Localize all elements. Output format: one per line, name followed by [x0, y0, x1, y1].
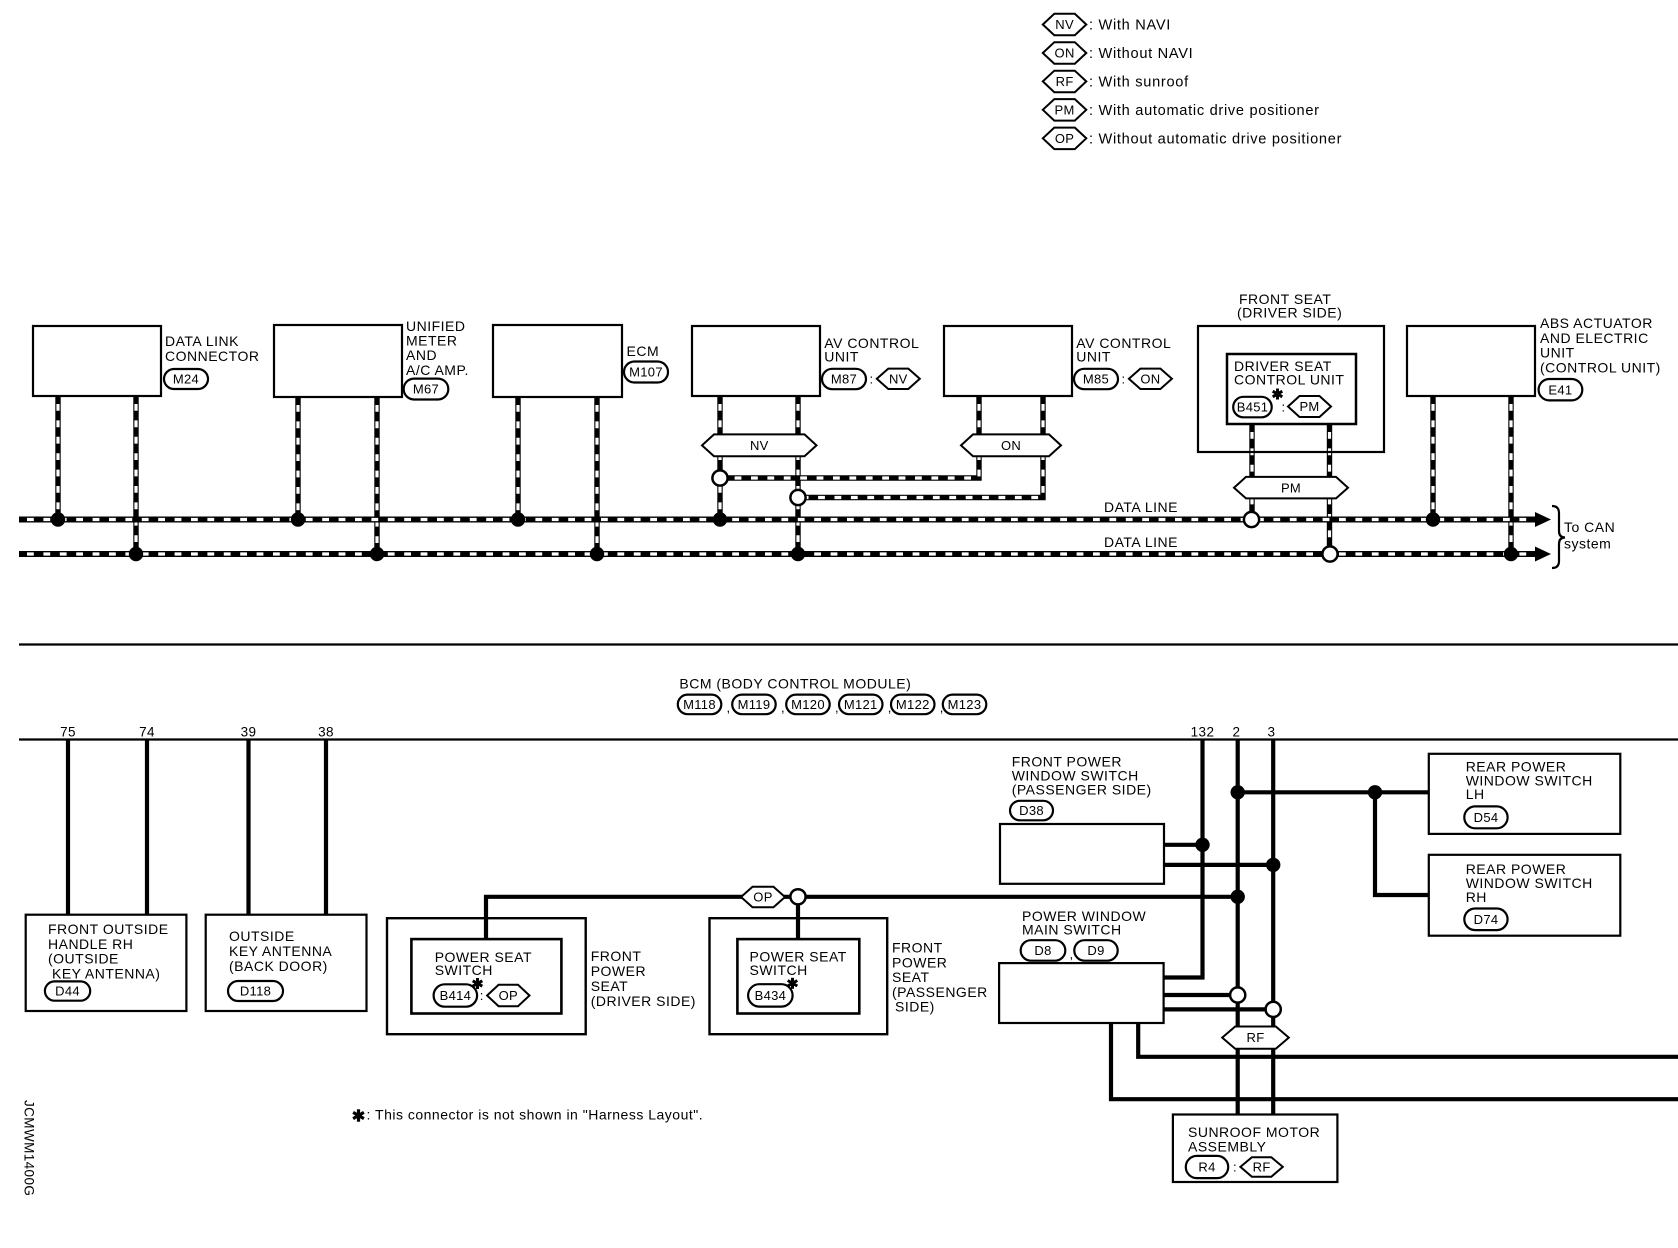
box FRONT POWER SEAT DRIVER outer [387, 918, 586, 1034]
svg-text:2: 2 [1233, 725, 1241, 740]
connector oval D38 [1010, 801, 1053, 821]
connector oval M24 [164, 369, 208, 389]
hexagon PM (B451 condition) [1288, 396, 1331, 417]
svg-text:M120: M120 [791, 697, 825, 712]
svg-text:D44: D44 [55, 984, 80, 999]
connector oval B414 [434, 984, 478, 1006]
label To CAN system [1564, 519, 1615, 552]
svg-text:MAIN SWITCH: MAIN SWITCH [1022, 922, 1122, 938]
svg-text:D8: D8 [1034, 943, 1051, 958]
svg-text:74: 74 [139, 725, 155, 740]
wire BCM pin 132 to main switch [1164, 741, 1203, 978]
junction M87/DATA LINE 1 [713, 512, 727, 526]
wire BCM pin 74 to D44 [145, 741, 149, 915]
label POWER WINDOW MAIN SWITCH [1022, 908, 1146, 938]
svg-text:(DRIVER SIDE): (DRIVER SIDE) [1237, 305, 1342, 321]
svg-text:(PASSENGER SIDE): (PASSENGER SIDE) [1012, 782, 1152, 798]
svg-text:AND: AND [406, 347, 437, 363]
wire D38 upper to pin 132 line [1164, 843, 1203, 847]
svg-text:JCMWM1400G: JCMWM1400G [22, 1100, 37, 1196]
svg-text:UNIT: UNIT [1540, 345, 1575, 361]
label ABS ACTUATOR AND ELECTRIC UNIT [1540, 315, 1661, 375]
svg-text:FRONT: FRONT [892, 940, 943, 956]
box D8/D9 POWER WINDOW MAIN SWITCH [999, 963, 1164, 1023]
connector oval M121 [839, 695, 883, 715]
svg-text:DATA LINE: DATA LINE [1104, 534, 1178, 550]
svg-text:D118: D118 [240, 984, 271, 999]
svg-text:CONNECTOR: CONNECTOR [165, 348, 259, 364]
wire BCM pin 2 to sunroof [1236, 741, 1240, 1115]
svg-text:HANDLE RH: HANDLE RH [48, 936, 133, 952]
svg-text::: : [1282, 400, 1286, 415]
label POWER SEAT SWITCH B434 [750, 949, 847, 979]
wire main switch bottom 1 off-page [1111, 1023, 1678, 1099]
svg-text:OP: OP [1055, 131, 1074, 146]
wire OP junction to B434 [796, 897, 800, 939]
label FRONT POWER SEAT (DRIVER SIDE) [591, 948, 696, 1009]
svg-text:132: 132 [1191, 725, 1215, 740]
svg-text:B414: B414 [440, 988, 472, 1003]
connector oval M118 [678, 695, 722, 715]
svg-text:M121: M121 [844, 697, 878, 712]
junction D38 upper/pin132 [1195, 838, 1209, 852]
box D38 FRONT POWER WINDOW SWITCH [1000, 824, 1164, 884]
asterisk B451 [1273, 389, 1283, 400]
junction E41/DATA LINE 1 [1426, 512, 1440, 526]
wire BCM pin 39 to D118 [246, 741, 250, 915]
svg-text:SWITCH: SWITCH [435, 962, 493, 978]
box B451 DRIVER SEAT CONTROL UNIT inner [1227, 354, 1356, 424]
svg-text:ON: ON [1001, 438, 1021, 453]
svg-text:M24: M24 [173, 372, 199, 387]
label REAR POWER WINDOW SWITCH LH [1466, 758, 1593, 802]
label POWER SEAT SWITCH B414 [435, 949, 532, 978]
svg-text:(PASSENGER: (PASSENGER [892, 984, 988, 1000]
label FRONT SEAT (DRIVER SIDE) [1239, 291, 1331, 307]
open junction main switch/pin2 [1230, 987, 1245, 1002]
svg-text:SUNROOF MOTOR: SUNROOF MOTOR [1188, 1124, 1320, 1140]
svg-text:OP: OP [753, 890, 772, 905]
svg-text:M87: M87 [831, 372, 857, 387]
label REAR POWER WINDOW SWITCH RH [1466, 861, 1593, 905]
svg-text:D54: D54 [1474, 810, 1499, 825]
svg-text:RF: RF [1253, 1160, 1271, 1175]
box R4 SUNROOF MOTOR ASSEMBLY [1173, 1115, 1338, 1183]
wire M107 pin to DATA LINE 1 [515, 397, 520, 520]
svg-text:M107: M107 [629, 365, 663, 380]
svg-text:UNIFIED: UNIFIED [406, 318, 466, 334]
svg-text:NV: NV [889, 371, 908, 386]
label UNIFIED METER AND A/C AMP [406, 318, 469, 378]
box FRONT POWER SEAT PASSENGER outer [710, 918, 888, 1034]
label OUTSIDE KEY ANTENNA [229, 928, 332, 974]
svg-text:FRONT: FRONT [591, 948, 642, 964]
label DRIVER SEAT CONTROL UNIT [1234, 358, 1344, 388]
DATA LINE 2 bus (CAN-L) [19, 551, 1537, 557]
svg-text:: This connector is not shown: : This connector is not shown in "Harnes… [367, 1107, 704, 1123]
wire pin 2 line to D54 [1238, 790, 1429, 794]
connector oval D44 [45, 981, 90, 1000]
box D54 REAR POWER WINDOW SWITCH LH [1429, 754, 1621, 834]
box B414 POWER SEAT SWITCH inner [411, 939, 561, 1013]
svg-text:(CONTROL UNIT): (CONTROL UNIT) [1540, 359, 1661, 375]
hexagon PM branch [1234, 477, 1348, 499]
svg-text:POWER: POWER [591, 963, 646, 979]
connector oval M123 [943, 695, 987, 715]
wire M85 pin to node A [722, 396, 980, 478]
open junction node B (M85/M87) [790, 490, 805, 505]
asterisk B434 [788, 978, 798, 989]
label DATA LINK CONNECTOR [165, 333, 259, 364]
svg-text:RF: RF [1247, 1030, 1265, 1045]
label FRONT OUTSIDE HANDLE RH [48, 921, 169, 967]
junction M67/DATA LINE 1 [291, 512, 305, 526]
svg-text:BCM (BODY CONTROL MODULE): BCM (BODY CONTROL MODULE) [679, 676, 911, 692]
connector oval B434 [748, 984, 793, 1006]
svg-text:: Without automatic drive posi: : Without automatic drive positioner [1089, 132, 1342, 148]
asterisk B414 [473, 978, 483, 989]
svg-text:ABS ACTUATOR: ABS ACTUATOR [1540, 315, 1653, 331]
connector oval D8 [1021, 940, 1066, 961]
wire BCM pin 75 to D44 [66, 741, 70, 915]
label AV CONTROL UNIT (ON) [1076, 335, 1171, 365]
box D118 OUTSIDE KEY ANTENNA [206, 915, 367, 1011]
connector oval M85 [1074, 369, 1118, 389]
junction M24/DATA LINE 2 [129, 547, 143, 561]
svg-text:WINDOW SWITCH: WINDOW SWITCH [1466, 772, 1593, 788]
connector oval M120 [786, 695, 830, 715]
svg-text:KEY ANTENNA: KEY ANTENNA [229, 943, 332, 959]
connector oval M107 [624, 362, 668, 383]
svg-text:FRONT OUTSIDE: FRONT OUTSIDE [48, 921, 169, 937]
open junction main switch/pin3 [1266, 1002, 1281, 1017]
svg-text:R4: R4 [1198, 1160, 1215, 1175]
box E41 ABS ACTUATOR [1407, 326, 1535, 396]
svg-text:OP: OP [499, 988, 518, 1003]
hexagon OP branch [741, 887, 785, 907]
svg-text:SEAT: SEAT [591, 978, 629, 994]
arrowhead DATA LINE 1 to CAN system [1535, 512, 1551, 527]
svg-text:RH: RH [1466, 889, 1487, 905]
connector oval M67 [404, 379, 449, 400]
junction D54 wire/pin2 [1231, 785, 1245, 799]
svg-text:LH: LH [1466, 786, 1485, 802]
wire M87 pin to DATA LINE 2 [795, 396, 800, 554]
label AV CONTROL UNIT (NV) [824, 335, 919, 365]
legend hexagon PM [1043, 99, 1087, 121]
label FRONT POWER WINDOW SWITCH [1012, 754, 1152, 798]
svg-text:ON: ON [1140, 371, 1160, 386]
svg-text:: With sunroof: : With sunroof [1089, 75, 1189, 91]
connector oval M122 [891, 695, 935, 715]
svg-text:RF: RF [1056, 74, 1074, 89]
svg-text:SWITCH: SWITCH [750, 962, 808, 978]
wire M67 pin to DATA LINE 2 [374, 397, 379, 554]
svg-text:OUTSIDE: OUTSIDE [229, 928, 295, 944]
wire main switch bottom 2 off-page [1138, 1023, 1678, 1057]
open junction node A (M85/M87) [712, 470, 727, 485]
hexagon OP (B414 condition) [487, 985, 529, 1006]
svg-text:M123: M123 [948, 697, 982, 712]
svg-text:38: 38 [318, 725, 334, 740]
hexagon NV (M87 condition) [877, 369, 920, 389]
wire B451 pin to DATA LINE 2 [1327, 424, 1332, 554]
hexagon RF branch [1222, 1027, 1289, 1049]
svg-text:,: , [727, 700, 731, 715]
BCM bottom line [19, 738, 1678, 740]
separator line [19, 643, 1678, 645]
junction M107/DATA LINE 1 [511, 512, 525, 526]
svg-text:: Without NAVI: : Without NAVI [1089, 46, 1193, 62]
junction E41/DATA LINE 2 [1504, 547, 1518, 561]
svg-text:,: , [1070, 947, 1074, 962]
wire BCM pin 38 to D118 [324, 741, 328, 915]
svg-text:39: 39 [241, 725, 257, 740]
svg-text:METER: METER [406, 333, 458, 349]
svg-text:NV: NV [750, 438, 769, 453]
open junction B451/DATA LINE 1 [1244, 512, 1259, 527]
svg-text:E41: E41 [1548, 382, 1572, 397]
svg-text:M122: M122 [896, 697, 930, 712]
svg-text:ON: ON [1055, 46, 1075, 61]
wire E41 pin to DATA LINE 1 [1430, 396, 1435, 520]
svg-text:PM: PM [1299, 399, 1319, 414]
svg-text:M85: M85 [1083, 372, 1109, 387]
open junction B451/DATA LINE 2 [1322, 546, 1337, 561]
svg-text:(OUTSIDE: (OUTSIDE [48, 951, 119, 967]
wire main switch to pin 2 line [1164, 993, 1238, 997]
svg-text:: With NAVI: : With NAVI [1089, 18, 1171, 34]
wire D38 lower to pin 3 line [1164, 863, 1274, 867]
connector oval D9 [1074, 940, 1117, 961]
connector oval R4 [1186, 1156, 1228, 1178]
connector oval B451 [1233, 397, 1272, 418]
wire M24 pin to DATA LINE 1 [55, 396, 60, 520]
wire branch to D74 [1375, 792, 1429, 895]
DATA LINE 1 bus (CAN-H) [19, 517, 1537, 523]
box FRONT SEAT (DRIVER SIDE) outer [1198, 326, 1384, 452]
wire M87 pin to DATA LINE 1 [717, 396, 722, 520]
wire M24 pin to DATA LINE 2 [133, 396, 138, 554]
svg-text:DATA LINK: DATA LINK [165, 333, 239, 349]
svg-text:ECM: ECM [627, 343, 660, 359]
wire main switch to pin 3 line [1164, 1007, 1274, 1011]
junction M67/DATA LINE 2 [370, 547, 384, 561]
box M107 ECM [493, 325, 622, 397]
svg-text:75: 75 [60, 725, 76, 740]
wire B451 pin to DATA LINE 1 [1249, 424, 1254, 520]
junction M87/DATA LINE 2 [791, 547, 805, 561]
hexagon ON branch [961, 434, 1061, 456]
connector oval D74 [1464, 909, 1507, 931]
hexagon RF (R4 condition) [1240, 1157, 1282, 1177]
wire BCM pin 3 to sunroof [1271, 741, 1275, 1115]
junction D74 branch [1368, 785, 1382, 799]
svg-text:B451: B451 [1237, 400, 1269, 415]
asterisk note [353, 1109, 364, 1121]
svg-text::: : [1122, 372, 1126, 387]
svg-text:D9: D9 [1087, 943, 1104, 958]
connector oval M119 [732, 695, 776, 715]
wire B414 to OP junction to pin 2 line [486, 897, 1238, 939]
wire M107 pin to DATA LINE 2 [594, 397, 599, 554]
box M87 AV CONTROL UNIT [692, 326, 820, 396]
svg-text:A/C AMP.: A/C AMP. [406, 362, 469, 378]
svg-text:KEY ANTENNA): KEY ANTENNA) [52, 965, 160, 981]
svg-text:M119: M119 [738, 697, 771, 712]
svg-text:To CAN: To CAN [1564, 519, 1615, 535]
wire M67 pin to DATA LINE 1 [295, 397, 300, 520]
junction OP wire/pin2 [1231, 890, 1245, 904]
svg-text:PM: PM [1281, 480, 1301, 495]
svg-text:M67: M67 [413, 382, 439, 397]
svg-text:AND ELECTRIC: AND ELECTRIC [1540, 330, 1649, 346]
open junction OP wire to B434 [790, 889, 805, 904]
svg-text:(BACK DOOR): (BACK DOOR) [229, 958, 328, 974]
svg-text:,: , [781, 700, 785, 715]
box D44 FRONT OUTSIDE HANDLE RH [26, 915, 187, 1011]
svg-text:system: system [1564, 536, 1611, 552]
svg-text::: : [870, 372, 874, 387]
box M24 DATA LINK CONNECTOR [33, 326, 161, 396]
box B434 POWER SEAT SWITCH inner [737, 939, 859, 1013]
svg-text:: With automatic drive positio: : With automatic drive positioner [1089, 103, 1320, 119]
svg-text:UNIT: UNIT [824, 349, 859, 365]
svg-text::: : [1233, 1160, 1237, 1175]
svg-text:UNIT: UNIT [1076, 349, 1111, 365]
wire E41 pin to DATA LINE 2 [1508, 396, 1513, 554]
svg-text::: : [480, 988, 484, 1003]
svg-text:CONTROL UNIT: CONTROL UNIT [1234, 372, 1344, 388]
arrowhead DATA LINE 2 to CAN system [1535, 547, 1551, 562]
junction M24/DATA LINE 1 [51, 512, 65, 526]
junction D38 lower/pin3 [1266, 858, 1280, 872]
legend hexagon NV [1043, 14, 1087, 35]
svg-text:(DRIVER SIDE): (DRIVER SIDE) [591, 993, 696, 1009]
label SUNROOF MOTOR ASSEMBLY [1188, 1124, 1320, 1155]
connector oval D118 [228, 981, 283, 1001]
legend hexagon OP [1043, 128, 1087, 150]
hexagon NV branch [702, 434, 817, 456]
connector oval D54 [1464, 806, 1507, 828]
svg-text:B434: B434 [755, 988, 787, 1003]
box M67 UNIFIED METER AND A/C AMP [274, 325, 402, 397]
svg-text:POWER: POWER [892, 954, 947, 970]
svg-text:ASSEMBLY: ASSEMBLY [1188, 1139, 1267, 1155]
brace to CAN system [1552, 506, 1565, 568]
connector oval M87 [822, 369, 866, 389]
label FRONT POWER SEAT (PASSENGER SIDE) [892, 940, 988, 1000]
legend hexagon ON [1043, 42, 1087, 64]
svg-text:SEAT: SEAT [892, 969, 930, 985]
box M85 AV CONTROL UNIT [944, 326, 1072, 396]
svg-text:3: 3 [1268, 725, 1276, 740]
wire M85 pin to node B [800, 396, 1044, 498]
svg-text:D74: D74 [1474, 912, 1499, 927]
connector oval E41 [1539, 379, 1583, 400]
svg-text:D38: D38 [1019, 803, 1044, 818]
svg-text:DATA LINE: DATA LINE [1104, 499, 1178, 515]
box D74 REAR POWER WINDOW SWITCH RH [1429, 855, 1621, 936]
svg-text:SIDE): SIDE) [895, 999, 935, 1015]
svg-text:M118: M118 [683, 697, 716, 712]
junction M107/DATA LINE 2 [590, 547, 604, 561]
svg-text:NV: NV [1055, 17, 1074, 32]
hexagon ON (M85 condition) [1129, 369, 1172, 389]
svg-text:PM: PM [1055, 102, 1075, 117]
legend hexagon RF [1043, 71, 1087, 93]
